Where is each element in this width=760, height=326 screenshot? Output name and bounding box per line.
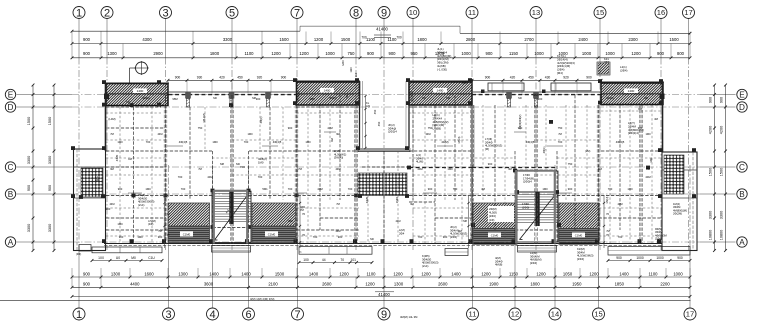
svg-text:[3W(4)]: [3W(4)] [334,156,343,160]
svg-text:1400: 1400 [241,271,251,276]
svg-text:D: D [739,103,745,112]
svg-text:44M: 44M [335,229,340,233]
svg-text:C1M0: C1M0 [575,234,583,238]
svg-text:3300: 3300 [27,224,31,232]
svg-text:1M0: 1M0 [212,140,218,144]
svg-text:900: 900 [677,256,683,260]
svg-text:1M0: 1M0 [247,132,253,136]
svg-text:1000: 1000 [656,256,664,260]
svg-text:900: 900 [83,271,91,276]
svg-text:(2x4): (2x4) [422,264,428,268]
svg-text:M8: M8 [220,162,224,166]
svg-text:44M: 44M [645,175,651,179]
svg-text:100: 100 [303,258,309,262]
svg-text:44M: 44M [425,132,430,136]
svg-text:1M0: 1M0 [287,219,293,223]
svg-text:7M: 7M [336,202,340,206]
svg-text:44M: 44M [207,175,213,179]
svg-text:900: 900 [488,162,493,166]
svg-text:11: 11 [469,310,477,319]
svg-text:1400: 1400 [619,271,629,276]
svg-text:3300: 3300 [27,156,31,164]
svg-text:7M: 7M [158,229,162,233]
svg-text:1950: 1950 [572,282,582,287]
svg-text:1000: 1000 [582,51,592,56]
svg-text:3: 3 [165,309,171,321]
svg-text:C: C [8,163,14,172]
svg-text:3600: 3600 [204,282,214,287]
svg-text:[2Φ4]: [2Φ4] [489,214,496,218]
svg-text:900: 900 [281,75,287,79]
svg-text:[2Φ4]: [2Φ4] [530,261,537,265]
svg-text:4L(M): 4L(M) [416,160,423,164]
svg-text:E: E [739,90,745,99]
svg-text:C1M0: C1M0 [183,233,191,237]
svg-text:900: 900 [538,97,543,101]
svg-text:(2x4): (2x4) [138,203,144,207]
svg-text:1800: 1800 [417,37,427,42]
svg-text:9M: 9M [508,167,512,171]
svg-text:7: 7 [294,7,300,19]
svg-text:1000: 1000 [534,51,544,56]
svg-text:1150: 1150 [509,271,519,276]
svg-text:1200: 1200 [271,51,281,56]
svg-text:(4M): (4M) [462,81,467,85]
svg-text:M0: M0 [213,96,217,100]
svg-text:450: 450 [377,121,381,126]
svg-text:750: 750 [428,126,433,130]
svg-text:1000: 1000 [605,51,615,56]
svg-text:750: 750 [558,126,563,130]
svg-text:6: 6 [245,309,251,321]
svg-text:2Φ(M): 2Φ(M) [489,207,497,211]
svg-text:A: A [739,238,745,247]
svg-text:900: 900 [428,187,433,191]
svg-text:44M0: 44M0 [365,196,369,203]
svg-text:900: 900 [638,126,643,130]
svg-text:9: 9 [381,309,387,321]
svg-text:(L4M): (L4M) [108,117,115,121]
svg-text:70: 70 [606,233,610,237]
svg-text:1300: 1300 [111,271,121,276]
svg-text:2200: 2200 [660,282,670,287]
svg-text:700: 700 [348,187,353,191]
svg-text:1500: 1500 [341,37,351,42]
svg-text:ΦM(5): ΦM(5) [142,96,150,100]
svg-text:9M: 9M [336,132,340,136]
svg-text:7M: 7M [558,132,562,136]
svg-text:2900: 2900 [153,51,163,56]
svg-text:(1Φ): (1Φ) [489,218,495,222]
svg-text:900: 900 [83,51,91,56]
svg-text:900: 900 [158,235,163,239]
svg-text:1200: 1200 [536,271,546,276]
svg-text:700: 700 [178,175,183,179]
svg-text:1200: 1200 [631,51,641,56]
svg-text:700: 700 [453,187,458,191]
svg-text:900: 900 [119,235,124,239]
svg-text:1600: 1600 [144,271,154,276]
svg-text:M(L4M): M(L4M) [202,113,206,122]
svg-text:4400: 4400 [130,282,140,287]
svg-text:3: 3 [162,7,168,19]
svg-text:2Φ(2M): 2Φ(2M) [673,212,682,216]
svg-text:M8: M8 [463,219,467,223]
svg-text:44M: 44M [395,219,400,223]
svg-text:4Φ(4)5: 4Φ(4)5 [273,140,282,144]
svg-text:750: 750 [568,162,573,166]
svg-text:900: 900 [338,235,343,239]
svg-text:[2Φ(2)4]: [2Φ(2)4] [628,131,639,135]
svg-text:C1U: C1U [148,256,155,260]
svg-text:44M: 44M [157,132,162,136]
svg-text:8: 8 [353,7,359,19]
svg-text:4Φ: 4Φ [95,178,99,182]
svg-text:15: 15 [596,8,604,17]
svg-text:M8: M8 [252,96,256,100]
svg-text:C1M0: C1M0 [491,234,499,238]
svg-text:D: D [8,103,14,112]
svg-text:700: 700 [288,187,293,191]
svg-text:4@: 4@ [366,104,370,108]
svg-text:750: 750 [348,51,356,56]
svg-text:700: 700 [618,235,623,239]
svg-text:1200: 1200 [339,271,349,276]
svg-text:9M: 9M [110,167,114,171]
svg-text:1L0: 1L0 [354,72,358,77]
svg-text:1200: 1200 [421,271,431,276]
svg-text:M2(J): M2(J) [605,197,609,204]
svg-text:1100: 1100 [366,271,376,276]
svg-text:(2M): (2M) [533,93,538,97]
svg-text:1: 1 [76,7,82,19]
svg-text:450: 450 [528,75,534,79]
svg-text:7M: 7M [198,167,202,171]
svg-text:1X0: 1X0 [98,256,104,260]
svg-text:E: E [8,90,14,99]
svg-text:14: 14 [551,310,559,319]
svg-text:17: 17 [684,8,692,17]
svg-text:1200: 1200 [393,271,403,276]
svg-text:1400: 1400 [437,89,444,93]
svg-text:44M0: 44M0 [115,154,119,161]
svg-text:44M: 44M [317,187,323,191]
svg-text:1400: 1400 [324,89,331,93]
svg-text:B: B [8,190,14,199]
svg-text:900: 900 [83,282,91,287]
svg-text:M0: M0 [518,96,522,100]
svg-text:7Φ0: 7Φ0 [240,165,246,169]
svg-text:920: 920 [563,75,569,79]
svg-text:1800: 1800 [530,282,540,287]
svg-text:1400: 1400 [209,271,219,276]
svg-text:(2Φ0): (2Φ0) [522,205,529,209]
svg-text:A: A [8,238,14,247]
svg-text:C: C [739,163,745,172]
svg-text:1: 1 [76,309,82,321]
svg-text:1400: 1400 [137,89,144,93]
svg-text:(9Φ): (9Φ) [76,252,81,256]
svg-text:4M(L): 4M(L) [542,146,546,153]
svg-text:900: 900 [288,126,293,130]
svg-text:3300: 3300 [48,156,52,164]
svg-text:70: 70 [302,233,306,237]
svg-text:1200: 1200 [589,271,599,276]
svg-text:1300: 1300 [107,51,117,56]
svg-text:900: 900 [586,75,592,79]
svg-text:[2Φ4]: [2Φ4] [655,237,662,241]
svg-text:1000: 1000 [636,256,644,260]
svg-text:1500: 1500 [708,168,712,176]
svg-text:2: 2 [104,7,110,19]
svg-text:700: 700 [313,235,318,239]
svg-text:101: 101 [350,258,356,262]
svg-text:900: 900 [616,256,622,260]
svg-text:750: 750 [198,126,203,130]
svg-text:2700: 2700 [524,37,534,42]
svg-text:4: 4 [209,309,215,321]
svg-text:4M(M) 14L 3M: 4M(M) 14L 3M [400,315,418,319]
svg-text:2400: 2400 [578,37,588,42]
svg-text:3300: 3300 [48,224,52,232]
svg-text:2300: 2300 [628,37,638,42]
svg-text:4Φ(4)5: 4Φ(4)5 [526,140,535,144]
svg-text:1M0: 1M0 [542,187,548,191]
svg-text:1M0: 1M0 [145,187,151,191]
svg-text:16: 16 [657,8,665,17]
svg-text:M4L: M4L [649,157,653,163]
svg-text:[M4]: [M4] [557,71,563,75]
svg-text:1100: 1100 [366,37,376,42]
svg-text:(-1.030): (-1.030) [437,67,447,71]
svg-text:3300: 3300 [719,211,723,219]
svg-text:2Φ4: 2Φ4 [399,231,405,235]
svg-text:44M: 44M [109,202,114,206]
svg-text:M0: M0 [236,162,240,166]
svg-text:900: 900 [256,97,261,101]
svg-text:ΦM(5): ΦM(5) [329,96,337,100]
svg-text:450: 450 [373,109,377,114]
svg-text:1200: 1200 [314,37,324,42]
svg-text:44: 44 [322,258,326,262]
svg-text:10: 10 [409,8,417,17]
svg-text:1300: 1300 [394,282,404,287]
svg-text:900: 900 [175,75,181,79]
svg-text:1500: 1500 [669,37,679,42]
svg-text:41400: 41400 [378,292,390,297]
svg-text:700: 700 [418,235,423,239]
svg-text:M0: M0 [370,237,374,241]
svg-text:11: 11 [468,8,476,17]
svg-text:15: 15 [594,310,602,319]
svg-text:12: 12 [511,310,519,319]
svg-text:700: 700 [244,140,249,144]
svg-text:420: 420 [219,75,225,79]
svg-text:4M(8): 4M(8) [495,263,502,267]
svg-text:[2Φ4]: [2Φ4] [450,235,457,239]
svg-text:700: 700 [396,35,402,39]
svg-text:900: 900 [83,37,91,42]
svg-text:1500: 1500 [719,168,723,176]
svg-text:900: 900 [443,235,448,239]
svg-text:800: 800 [677,51,685,56]
svg-text:(2Φ4): (2Φ4) [620,68,627,72]
svg-text:41400: 41400 [376,27,388,32]
svg-text:1500: 1500 [275,271,285,276]
svg-text:70: 70 [302,212,306,216]
svg-text:2800: 2800 [466,37,476,42]
svg-text:(2Φ0)4: (2Φ0)4 [523,180,532,184]
svg-text:1100: 1100 [244,51,254,56]
svg-text:1500: 1500 [279,37,289,42]
svg-text:900: 900 [367,51,375,56]
svg-text:420: 420 [510,75,516,79]
svg-text:M8: M8 [446,96,450,100]
svg-text:5: 5 [229,7,235,19]
svg-text:(2M): (2M) [585,149,590,153]
svg-text:98M: 98M [172,97,178,101]
svg-text:4Φ(M)ΦΦ(2): 4Φ(M)ΦΦ(2) [518,115,522,130]
svg-text:L4(6B): L4(6B) [433,127,442,131]
svg-text:9M: 9M [410,202,414,206]
svg-text:4Φ(4)5: 4Φ(4)5 [616,140,625,144]
svg-text:7M: 7M [646,167,650,171]
svg-text:44M: 44M [327,126,333,130]
svg-text:44M: 44M [417,167,423,171]
svg-text:900: 900 [568,187,573,191]
svg-text:2600: 2600 [438,282,448,287]
svg-text:1900: 1900 [489,282,499,287]
svg-text:900: 900 [485,75,491,79]
svg-text:430: 430 [545,75,551,79]
svg-text:44M: 44M [617,202,622,206]
svg-text:1200: 1200 [481,271,491,276]
svg-text:1500: 1500 [48,117,52,125]
svg-text:4M(L): 4M(L) [259,116,263,123]
svg-text:2600: 2600 [322,282,332,287]
svg-text:1850: 1850 [615,282,625,287]
svg-text:Φ7M0(5): Φ7M0(5) [410,91,414,101]
svg-text:3300: 3300 [708,211,712,219]
svg-text:7M: 7M [110,132,114,136]
svg-text:17: 17 [686,310,694,319]
svg-text:1200: 1200 [299,51,309,56]
svg-text:9: 9 [381,7,387,19]
svg-text:4Φ(4)5: 4Φ(4)5 [179,140,188,144]
svg-text:M40: M40 [341,60,345,66]
svg-text:700: 700 [558,140,563,144]
svg-text:U0: U0 [116,256,120,260]
svg-text:700: 700 [146,140,151,144]
svg-text:Φ7M0(5): Φ7M0(5) [297,91,301,101]
svg-text:1100: 1100 [387,37,397,42]
svg-text:900: 900 [106,207,111,211]
svg-text:ΦM(5): ΦM(5) [606,96,614,100]
svg-text:7: 7 [294,309,300,321]
svg-text:1050: 1050 [563,271,573,276]
svg-text:4200: 4200 [719,126,723,134]
svg-text:930: 930 [197,75,203,79]
svg-text:4200: 4200 [708,126,712,134]
svg-text:900: 900 [389,51,397,56]
svg-text:4(M) 1(M) 2(M) 3(M): 4(M) 1(M) 2(M) 3(M) [250,297,274,301]
svg-text:1150: 1150 [509,51,519,56]
svg-text:900: 900 [719,97,723,103]
svg-text:1400: 1400 [628,89,635,93]
svg-text:(4Φ): (4Φ) [148,222,154,226]
svg-text:1M0: 1M0 [349,67,353,73]
svg-text:1300: 1300 [178,271,188,276]
svg-text:1400: 1400 [309,271,319,276]
svg-text:900: 900 [657,51,665,56]
svg-text:900: 900 [27,185,31,191]
svg-text:70: 70 [606,212,610,216]
svg-text:[2Φ4]: [2Φ4] [577,257,584,261]
svg-text:450: 450 [237,75,243,79]
svg-text:[M]: [M] [485,147,489,151]
svg-text:1200: 1200 [365,282,375,287]
svg-text:M0: M0 [126,100,130,104]
svg-text:1M0: 1M0 [258,160,264,164]
svg-text:4M5: 4M5 [309,97,315,101]
svg-text:10800: 10800 [708,230,712,241]
svg-text:900: 900 [486,51,494,56]
svg-text:2100: 2100 [268,282,278,287]
svg-text:1800: 1800 [210,51,220,56]
svg-text:9M: 9M [458,229,462,233]
svg-text:M0: M0 [422,96,426,100]
svg-text:B: B [739,190,745,199]
svg-text:700: 700 [181,187,186,191]
svg-text:M(L4): M(L4) [457,136,461,143]
svg-text:1000: 1000 [325,51,335,56]
svg-text:10800: 10800 [719,230,723,241]
svg-text:1500: 1500 [27,117,31,125]
svg-text:(2Φ2)4: (2Φ2)4 [388,130,397,134]
svg-text:950: 950 [411,51,419,56]
svg-text:7M: 7M [606,229,610,233]
svg-text:1000: 1000 [673,271,683,276]
svg-text:900: 900 [48,185,52,191]
svg-text:700: 700 [258,175,263,179]
svg-text:1M0: 1M0 [645,132,651,136]
svg-text:4300: 4300 [142,37,152,42]
svg-text:M0: M0 [644,96,648,100]
svg-text:1100: 1100 [648,271,658,276]
svg-text:5M1: 5M1 [262,187,268,191]
svg-text:1400: 1400 [451,271,461,276]
svg-text:1M0: 1M0 [137,235,143,239]
svg-text:3300: 3300 [223,37,233,42]
svg-text:1M00: 1M00 [395,196,399,203]
svg-text:44M: 44M [335,167,340,171]
svg-text:70: 70 [340,258,344,262]
svg-text:1M0: 1M0 [447,167,453,171]
svg-text:13: 13 [532,8,540,17]
svg-text:920: 920 [257,75,263,79]
svg-text:1000: 1000 [461,51,471,56]
svg-text:900: 900 [708,97,712,103]
svg-text:C1M0: C1M0 [268,233,276,237]
svg-text:M0: M0 [131,256,136,260]
svg-text:4L5(8): 4L5(8) [489,211,497,215]
